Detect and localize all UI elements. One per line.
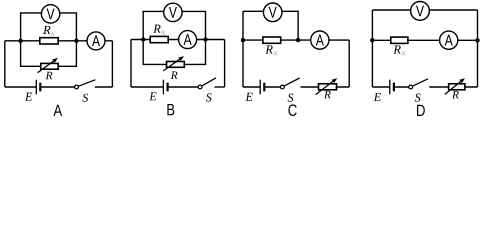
wire D right edge bbox=[477, 10, 479, 87]
rheostat R (circuit B) wiper arrow bbox=[163, 56, 184, 71]
node junction right (circuit D) bbox=[475, 38, 479, 42]
ammeter A (circuit C) bbox=[311, 31, 329, 49]
label S switch (circuit D) bbox=[415, 93, 421, 101]
rheostat R body (circuit B) bbox=[167, 62, 185, 68]
wire D switch to rheostat and right corner bbox=[429, 86, 477, 88]
wire B switch to bottom right corner bbox=[215, 86, 225, 88]
wire B left edge bbox=[130, 40, 132, 88]
battery E (circuit C) bbox=[260, 80, 264, 95]
switch S (circuit B) bbox=[198, 78, 216, 89]
node junction right (circuit A) bbox=[74, 39, 78, 43]
voltmeter V (circuit C) bbox=[263, 3, 282, 22]
label E battery (circuit C) bbox=[245, 93, 252, 101]
ammeter A (circuit A) bbox=[87, 32, 105, 50]
rheostat R body (circuit D) bbox=[449, 84, 465, 90]
resistor Rx (circuit C) bbox=[263, 37, 281, 43]
wire C left edge bbox=[242, 11, 244, 87]
wire B battery to switch bbox=[168, 86, 200, 88]
label Rx subscript x (circuit D) bbox=[401, 51, 405, 55]
wire B voltmeter loop bbox=[143, 11, 205, 39]
wire A switch to bottom right corner bbox=[95, 86, 113, 88]
label Rx R (circuit C) bbox=[265, 45, 272, 53]
wire D battery to switch bbox=[394, 86, 411, 88]
answer letter D bbox=[417, 105, 425, 116]
label R rheostat (circuit A) bbox=[46, 72, 53, 79]
node junction left (circuit D) bbox=[370, 38, 374, 42]
wire B rheostat loop bbox=[143, 40, 205, 65]
node junction left (circuit B) bbox=[141, 37, 145, 41]
node junction left (circuit C) bbox=[241, 38, 245, 42]
rheostat R body (circuit C) bbox=[319, 84, 337, 90]
rheostat R (circuit D) wiper arrow bbox=[445, 78, 465, 94]
label E battery (circuit A) bbox=[25, 93, 32, 101]
wire A battery to switch bbox=[40, 86, 76, 88]
switch S (circuit A) bbox=[75, 80, 96, 89]
label Rx R (circuit D) bbox=[393, 45, 400, 53]
wire C battery to switch bbox=[264, 86, 282, 88]
label E battery (circuit D) bbox=[374, 93, 381, 101]
label R rheostat (circuit C) bbox=[324, 91, 331, 98]
resistor Rx (circuit B) bbox=[150, 36, 168, 42]
wire A rheostat loop bbox=[21, 41, 77, 67]
switch S (circuit D) bbox=[409, 79, 428, 89]
node junction right (circuit B) bbox=[203, 37, 207, 41]
rheostat R (circuit A) wiper arrow bbox=[38, 58, 58, 73]
answer letter C bbox=[288, 104, 296, 116]
wire D top edge through voltmeter bbox=[372, 9, 477, 11]
label Rx subscript x (circuit A) bbox=[51, 32, 55, 36]
wire A left edge bbox=[4, 41, 6, 87]
resistor Rx (circuit D) bbox=[391, 37, 408, 43]
wire D bottom left to battery bbox=[372, 86, 389, 88]
rheostat R (circuit C) wiper arrow bbox=[316, 78, 338, 95]
answer letter B bbox=[167, 104, 174, 115]
voltmeter V (circuit A) bbox=[41, 5, 59, 23]
label R rheostat (circuit D) bbox=[452, 91, 459, 98]
wire A bottom left to battery bbox=[5, 86, 37, 88]
ammeter A (circuit B) bbox=[179, 31, 197, 49]
wire B middle row left edge to right edge through Rx and ammeter bbox=[131, 39, 225, 41]
node junction left (circuit A) bbox=[18, 39, 22, 43]
wire D middle row through Rx and ammeter bbox=[372, 39, 477, 41]
label S switch (circuit B) bbox=[206, 93, 212, 101]
label E battery (circuit B) bbox=[149, 92, 156, 100]
voltmeter V (circuit D) bbox=[411, 2, 430, 21]
voltmeter V (circuit B) bbox=[164, 3, 182, 21]
ammeter A (circuit D) bbox=[440, 31, 458, 49]
node junction right (circuit C) bbox=[296, 38, 300, 42]
label Rx R (circuit B) bbox=[153, 25, 160, 33]
wire A middle row left edge to right edge through Rx bbox=[5, 40, 113, 42]
wire C right edge bbox=[348, 40, 350, 87]
wire A voltmeter loop bbox=[21, 13, 77, 41]
label S switch (circuit C) bbox=[288, 94, 294, 102]
battery E (circuit A) bbox=[36, 80, 40, 95]
label Rx subscript x (circuit B) bbox=[161, 31, 165, 35]
label Rx R (circuit A) bbox=[43, 26, 50, 34]
switch S (circuit C) bbox=[280, 78, 299, 89]
rheostat R body (circuit A) bbox=[41, 63, 58, 69]
resistor Rx (circuit A) bbox=[40, 38, 58, 44]
wire C middle row node to right edge through Rx and ammeter bbox=[243, 39, 349, 41]
wire C bottom left to battery bbox=[243, 86, 260, 88]
battery E (circuit B) bbox=[163, 80, 167, 95]
wire B bottom left to battery bbox=[131, 86, 163, 88]
answer letter A bbox=[53, 105, 62, 116]
wire C switch to rheostat and right corner bbox=[301, 86, 350, 88]
wire B right edge bbox=[224, 40, 226, 88]
label R rheostat (circuit B) bbox=[171, 72, 178, 79]
label Rx subscript x (circuit C) bbox=[273, 51, 277, 55]
label S switch (circuit A) bbox=[82, 94, 88, 102]
wire A right edge bbox=[111, 41, 113, 87]
battery E (circuit D) bbox=[390, 80, 394, 95]
wire C voltmeter loop top and right bbox=[243, 11, 298, 40]
wire D left edge bbox=[371, 10, 373, 87]
